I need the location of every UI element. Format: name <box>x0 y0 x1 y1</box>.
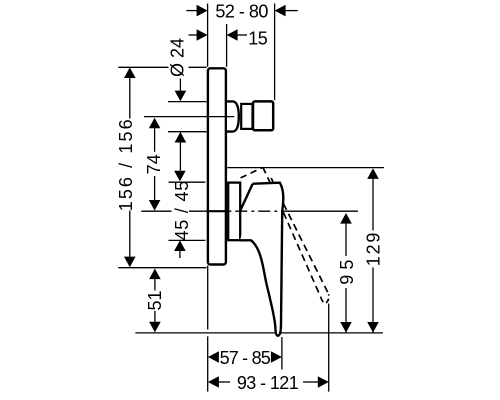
dimension 129 (far right vertical) <box>367 168 379 179</box>
svg-text:15: 15 <box>248 29 268 49</box>
lever handle body (down position) <box>240 183 283 336</box>
knob end cap <box>253 101 273 130</box>
extension line lever front (x=281.9) <box>281 337 283 370</box>
dimension 95 (right vertical) <box>340 213 352 224</box>
extension line knob bottom (y=131.7) <box>168 131 207 133</box>
svg-text:Ø 24: Ø 24 <box>168 38 188 77</box>
dimension 57 - 85 (bottom) <box>208 351 219 363</box>
escutcheon plate (side view) <box>208 68 226 264</box>
svg-text:74: 74 <box>144 154 164 174</box>
lever neck diagonal <box>240 184 253 211</box>
dashed lever raised: grip right line <box>283 204 328 295</box>
extension line sleeve bottom left (y=240.4) <box>169 239 206 241</box>
extension line right of knob cap (x=274.6) <box>274 4 276 101</box>
svg-text:93 - 121: 93 - 121 <box>237 373 299 393</box>
dimension 45 / 45 (vertical, arrows outside) <box>174 171 186 182</box>
extension line plate bottom (y=267.7) <box>118 267 206 269</box>
dashed lever raised position: neck top edge <box>241 167 263 178</box>
svg-text:9: 9 <box>337 275 357 285</box>
knob mid cylinder <box>241 104 252 129</box>
dimension Ø 24 (vertical, arrows outside) <box>179 79 181 92</box>
dashed lever raised: grip tip cap <box>321 294 329 303</box>
cartridge sleeve <box>228 183 240 241</box>
svg-text:57 - 85: 57 - 85 <box>220 348 271 368</box>
centerline of knob (y=116.6, crosses plate) <box>144 116 234 118</box>
extension line sleeve top left (y=182.2) <box>169 181 206 183</box>
extension line raised-lever top (y=167.6) <box>227 167 384 169</box>
svg-text:52 - 80: 52 - 80 <box>215 1 268 21</box>
extension line plate right edge up (x=226.6) <box>226 24 228 67</box>
knob neck on plate <box>227 101 239 131</box>
dimension 52 - 80 (top) <box>186 10 197 12</box>
dimension 74 (vertical) <box>149 118 161 129</box>
extension line wall plane lower (x=207.7) <box>207 266 209 330</box>
extension line left (wall plane, x=207.6 top) <box>207 4 209 67</box>
svg-text:51: 51 <box>145 290 165 310</box>
extension line plate top (y=67.3, broken by rotated text) <box>118 66 168 68</box>
dashed lever raised: sliver above solid lever <box>271 178 273 183</box>
svg-text:5: 5 <box>337 260 357 270</box>
extension line knob top (y=101.6) <box>168 101 207 103</box>
svg-text:156 / 156: 156 / 156 <box>116 117 136 211</box>
dashed lever raised: grip left line <box>283 212 321 297</box>
svg-text:45 / 45: 45 / 45 <box>172 180 192 241</box>
dimension 15 (top second row) <box>189 34 198 36</box>
svg-text:129: 129 <box>363 231 383 266</box>
dashed lever raised: upper left edge <box>263 167 270 182</box>
extension line raised lever tip (x=328.7) <box>328 304 330 392</box>
handle pivot centerline (y=211.2) <box>141 210 171 212</box>
dimension 156 / 156 (far left vertical) <box>124 67 136 78</box>
extension line lever tip bottom (y=332.9, broken at lever tip) <box>135 332 275 334</box>
dimension 51 (vertical) <box>149 269 161 280</box>
dimension 93 - 121 (bottom) <box>208 376 219 388</box>
